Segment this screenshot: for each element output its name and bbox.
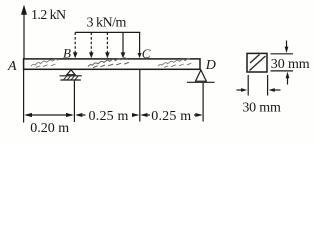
section height dim: bottom tick: [271, 70, 294, 72]
beam surface scribble hatch right: [158, 59, 191, 68]
beam surface scribble hatch left: [31, 59, 58, 67]
section width dim: right inward arrow: [269, 88, 281, 92]
cross-section square 30x30: [247, 53, 267, 72]
svg-text:B: B: [63, 45, 71, 60]
section height dim: top tick: [271, 53, 294, 55]
dimension 0.20 m (A to B) double arrow: [24, 113, 74, 117]
section width dim: left inward arrow: [237, 88, 248, 92]
support B ground bottom line: [60, 79, 81, 81]
section width dim: extension line right: [267, 75, 269, 96]
support D ground line: [187, 81, 215, 83]
beam outline A to D: [24, 59, 200, 69]
pin support at B (triangle): [67, 70, 75, 75]
svg-text:3 kN/m: 3 kN/m: [87, 16, 127, 31]
svg-text:A: A: [7, 59, 17, 74]
support B ground hatching: [64, 76, 79, 80]
section height dim: up arrow: [286, 72, 290, 85]
svg-text:1.2 kN: 1.2 kN: [31, 8, 66, 23]
extension line at B support: [73, 81, 75, 122]
load force arrow 1.2 kN at A (upward): [21, 5, 27, 59]
support B ground top line: [60, 75, 82, 77]
dimension 0.25 m (C to D) arrows: [140, 113, 202, 117]
svg-text:D: D: [205, 58, 216, 73]
svg-text:30 mm: 30 mm: [242, 100, 281, 115]
extension line at A: [23, 69, 25, 122]
distributed load arrow 1: [73, 32, 78, 58]
svg-text:0.25 m: 0.25 m: [89, 109, 129, 124]
svg-text:30 mm: 30 mm: [271, 57, 310, 72]
cross-section hatch lines: [250, 55, 266, 71]
beam surface scribble hatch middle: [88, 58, 129, 68]
distributed load arrow 2: [89, 32, 94, 58]
distributed load arrow 5 (right edge): [138, 32, 142, 58]
dimension 0.25 m (B to C) arrows: [75, 113, 139, 117]
svg-text:C: C: [142, 46, 151, 61]
distributed load arrow 4: [121, 32, 126, 58]
extension line at D support: [202, 83, 204, 122]
svg-text:0.25 m: 0.25 m: [151, 109, 191, 124]
section height dim: down arrow: [285, 41, 289, 54]
section width dim: extension line left: [247, 75, 249, 96]
distributed load arrow 3: [105, 32, 110, 58]
roller support at D (triangle): [196, 70, 207, 81]
distributed load top bar: [75, 31, 140, 33]
extension line at C: [139, 69, 141, 121]
svg-text:0.20 m: 0.20 m: [30, 121, 69, 136]
